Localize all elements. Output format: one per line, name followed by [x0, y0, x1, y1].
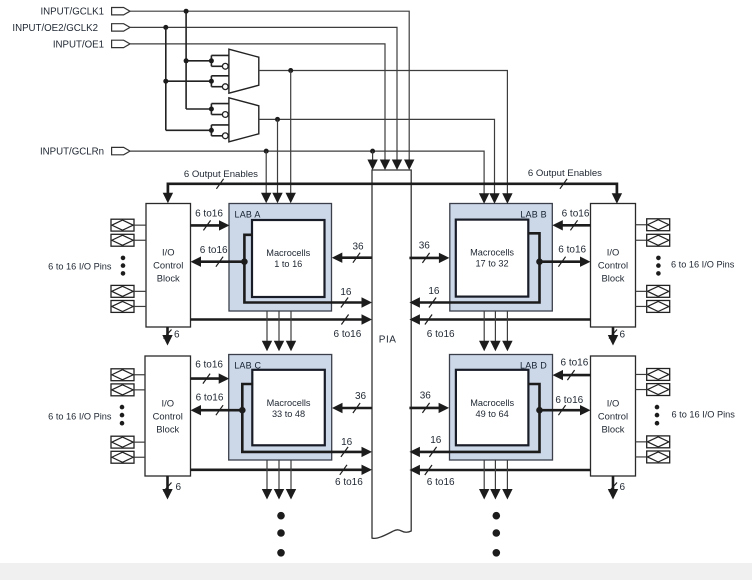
svg-text:PIA: PIA [379, 334, 397, 345]
junction GCLK1 mux1 row [184, 58, 189, 63]
I/O pins left top pair 1 [111, 219, 134, 231]
wire mux U1 output drop to LAB A [290, 71, 292, 197]
junction feedback LAB D [536, 407, 543, 414]
wire GCLK1 to PIA [130, 11, 409, 163]
wire LAB B to LAB D line 3 [506, 311, 508, 345]
I/O pins left top pair 3 [111, 285, 134, 297]
svg-text:Control: Control [153, 260, 183, 271]
wire LAB A to LAB C line 1 [266, 311, 268, 345]
feedback path LAB A [244, 235, 363, 303]
I/O pins left bottom pair 3 [111, 436, 134, 448]
feedback path LAB D [418, 384, 540, 452]
arrow LAB C to IO 6 to16 [200, 409, 243, 412]
slash 16 LAB C [341, 447, 348, 457]
I/O pins right top pair 2 [647, 234, 670, 246]
svg-text:6 to 16 I/O Pins: 6 to 16 I/O Pins [48, 261, 112, 271]
svg-text:1 to 16: 1 to 16 [274, 259, 302, 269]
input pin INPUT/GCLK1 [40, 7, 130, 18]
svg-text:Block: Block [156, 423, 179, 434]
macrocell box D [456, 370, 529, 446]
slash 16 LAB D [429, 447, 436, 457]
wire LAB C output 1 [266, 460, 268, 493]
I/O pins right top pair 4 [647, 301, 670, 313]
arrow IO to PIA right bottom 6 to16 [418, 469, 591, 472]
wire OE2 mux feed vertical [165, 27, 167, 130]
svg-text:6: 6 [176, 482, 182, 493]
arrow IO to LAB D 6 to16 [561, 374, 591, 377]
wire LAB B to LAB D line 2 [494, 311, 496, 345]
I/O Control Block left top [146, 204, 191, 328]
arrow LAB B to IO 6 to16 [540, 260, 583, 263]
arrow 6 below right bottom IO block [612, 476, 615, 491]
I/O Control Block right top [591, 204, 636, 328]
svg-text:6: 6 [620, 482, 626, 493]
svg-text:6 Output Enables: 6 Output Enables [528, 168, 602, 179]
svg-text:Block: Block [157, 273, 180, 284]
wire LAB C output 3 [290, 460, 292, 493]
junction mux U2 output to LAB A [275, 117, 280, 122]
svg-text:Block: Block [602, 423, 625, 434]
junction GCLRn to PIA [370, 149, 375, 154]
junction feedback LAB B [536, 258, 543, 265]
I/O pins left bottom pair 2 [111, 384, 134, 396]
svg-text:LAB A: LAB A [235, 210, 261, 220]
svg-text:6: 6 [174, 329, 180, 340]
ellipsis dots below LAB C [277, 512, 285, 557]
wire LAB B to LAB D line 1 [483, 311, 485, 345]
junction GCLRn to LAB A [264, 149, 269, 154]
svg-text:6 to16: 6 to16 [427, 329, 455, 340]
ellipsis dots left bottom pins [120, 405, 125, 426]
svg-text:6 to16: 6 to16 [196, 392, 224, 403]
svg-text:I/O: I/O [161, 397, 174, 408]
arrow IO to PIA left top 6 to16 [191, 318, 364, 321]
junction GCLK1 branch [184, 9, 189, 14]
svg-text:36: 36 [420, 391, 432, 402]
arrow 6 below right top IO block [612, 327, 615, 337]
bus slash left [216, 179, 223, 189]
svg-text:INPUT/GCLRn: INPUT/GCLRn [40, 147, 104, 158]
svg-text:Macrocells: Macrocells [470, 398, 514, 408]
arrow IO to PIA right top 6 to16 [418, 318, 591, 321]
ellipsis dots left top pins [121, 256, 126, 276]
svg-text:INPUT/OE1: INPUT/OE1 [53, 39, 104, 50]
svg-text:6 to 16 I/O Pins: 6 to 16 I/O Pins [671, 260, 735, 270]
arrow LAB A to IO 6 to16 [200, 260, 245, 263]
arrow 6 below left bottom IO block [166, 476, 169, 491]
slash 16 LAB B [429, 298, 436, 308]
svg-text:Macrocells: Macrocells [266, 248, 310, 258]
svg-text:Control: Control [598, 410, 628, 421]
ellipsis dots right bottom pins [655, 405, 660, 426]
mux U1 (clock select) [229, 49, 259, 93]
feedback path LAB C [242, 384, 363, 452]
svg-text:Control: Control [153, 410, 183, 421]
wire GCLK1 mux feed vertical [185, 11, 187, 109]
svg-text:6 to 16 I/O Pins: 6 to 16 I/O Pins [48, 411, 112, 421]
arrow 6 below left top IO block [166, 327, 169, 337]
svg-text:33 to 48: 33 to 48 [272, 409, 305, 419]
arrow IO to LAB C 6 to16 [191, 377, 221, 380]
arrow PIA to LAB D 36 [409, 407, 441, 410]
LAB block LAB C [229, 355, 332, 461]
I/O pins left top pair 4 [111, 301, 134, 313]
svg-text:6 to16: 6 to16 [560, 357, 588, 368]
wire GCLRn drop to LAB A [265, 151, 267, 197]
I/O pins left top pair 2 [111, 234, 134, 246]
wire LAB D output 3 [506, 460, 508, 493]
ellipsis dots right top pins [656, 256, 661, 276]
wire GCLK1 to mux1 input row [186, 60, 211, 62]
svg-text:16: 16 [341, 437, 353, 448]
mux U1 input 2 with inverter bubble [210, 76, 212, 87]
svg-text:INPUT/GCLK1: INPUT/GCLK1 [40, 7, 104, 18]
arrow LAB D to IO 6 to16 [540, 409, 583, 412]
wire LAB A to LAB C line 2 [278, 311, 280, 345]
wire GCLRn [130, 151, 484, 197]
I/O pins right top pair 3 [647, 285, 670, 297]
input pin INPUT/GCLRn [40, 147, 130, 158]
I/O pins left bottom pair 1 [111, 369, 134, 381]
wire GCLK1 to mux2 input row [186, 108, 211, 110]
wire LAB D output 2 [494, 460, 496, 493]
svg-text:I/O: I/O [607, 247, 620, 258]
svg-text:49 to 64: 49 to 64 [476, 409, 509, 419]
svg-text:6 to16: 6 to16 [555, 395, 583, 406]
macrocell box C [252, 370, 324, 446]
wire OE2/GCLK2 to PIA [130, 27, 397, 163]
input pin INPUT/OE1 [53, 39, 130, 50]
bus 6 Output Enables [168, 184, 617, 195]
junction feedback LAB A [241, 258, 248, 265]
svg-text:Macrocells: Macrocells [470, 248, 514, 258]
svg-text:36: 36 [352, 242, 364, 253]
macrocell box A [252, 220, 325, 297]
svg-text:Block: Block [602, 273, 625, 284]
I/O pins right bottom pair 3 [647, 436, 670, 448]
junction OE2 branch [163, 25, 168, 30]
slash 16 LAB A [341, 298, 348, 308]
I/O pins right bottom pair 1 [647, 369, 670, 381]
svg-text:6 to16: 6 to16 [562, 209, 590, 220]
wire GCLRn drop to PIA [372, 151, 374, 163]
junction feedback LAB C [239, 407, 246, 414]
macrocell box B [456, 220, 529, 297]
feedback path LAB B [418, 233, 540, 302]
wire LAB C output 2 [278, 460, 280, 493]
svg-text:16: 16 [340, 287, 352, 298]
I/O pins right top pair 1 [647, 219, 670, 231]
wire OE2 to mux1 input row [166, 80, 212, 82]
mux U1 input 1 with inverter bubble [210, 55, 212, 66]
PIA block [372, 170, 411, 538]
mux U2 (enable select) [229, 98, 259, 142]
svg-text:16: 16 [430, 435, 442, 446]
wire mux U2 output drop to LAB A [277, 119, 279, 196]
junction mux U1 output to LAB A [288, 68, 293, 73]
svg-text:6 to16: 6 to16 [335, 477, 363, 488]
wire mux U1 output [259, 71, 508, 198]
arrow PIA to LAB B 36 [409, 257, 441, 260]
I/O pins right bottom pair 2 [647, 384, 670, 396]
LAB block LAB A [229, 204, 332, 312]
svg-text:LAB B: LAB B [520, 210, 547, 220]
svg-text:6 to16: 6 to16 [200, 245, 228, 256]
I/O Control Block right bottom [591, 356, 636, 476]
svg-text:36: 36 [419, 241, 431, 252]
bus slash right [560, 179, 567, 189]
svg-text:17 to 32: 17 to 32 [475, 259, 508, 269]
svg-text:I/O: I/O [607, 397, 620, 408]
LAB block LAB B [450, 204, 553, 312]
svg-text:6 to 16 I/O Pins: 6 to 16 I/O Pins [672, 409, 736, 419]
svg-text:36: 36 [355, 391, 367, 402]
svg-text:Control: Control [598, 260, 628, 271]
svg-text:6 to16: 6 to16 [558, 245, 586, 256]
wire LAB A to LAB C line 3 [290, 311, 292, 345]
LAB block LAB D [450, 355, 553, 461]
arrow PIA to LAB A 36 [341, 256, 373, 259]
svg-text:6 Output Enables: 6 Output Enables [184, 169, 258, 180]
svg-text:6 to16: 6 to16 [195, 360, 223, 371]
svg-text:I/O: I/O [162, 247, 175, 258]
svg-text:6 to16: 6 to16 [195, 209, 223, 220]
mux U2 input 1 with inverter bubble [210, 104, 212, 115]
svg-text:6 to16: 6 to16 [333, 329, 361, 340]
svg-text:6 to16: 6 to16 [427, 477, 455, 488]
arrow PIA to LAB C 36 [341, 407, 372, 410]
I/O Control Block left bottom [145, 356, 191, 476]
arrow IO to PIA left bottom 6 to16 [191, 468, 364, 471]
svg-text:Macrocells: Macrocells [267, 398, 311, 408]
bottom gray strip [0, 563, 752, 580]
input pin INPUT/OE2/GCLK2 [12, 23, 130, 34]
svg-text:INPUT/OE2/GCLK2: INPUT/OE2/GCLK2 [12, 23, 98, 34]
arrow IO to LAB A 6 to16 [191, 224, 222, 227]
wire OE1 to PIA [130, 44, 385, 164]
wire mux U2 output [259, 119, 495, 197]
wire LAB D output 1 [483, 460, 485, 493]
I/O pins right bottom pair 4 [647, 451, 670, 463]
ellipsis dots below LAB D [493, 512, 501, 557]
wire OE2 to mux2 input row [166, 129, 212, 131]
mux U2 input 2 with inverter bubble [210, 125, 212, 136]
I/O pins left bottom pair 4 [111, 451, 134, 463]
svg-text:6: 6 [620, 329, 626, 340]
junction OE2 mux1 row [163, 79, 168, 84]
svg-text:16: 16 [428, 286, 440, 297]
arrow IO to LAB B 6 to16 [561, 224, 591, 227]
